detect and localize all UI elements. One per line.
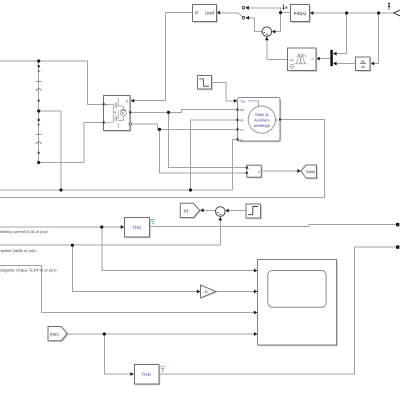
svg-text:Trq: Trq <box>240 99 245 103</box>
wire speed trunk <box>0 244 220 246</box>
node bridge low <box>158 128 161 131</box>
node neutral-DC <box>59 188 62 191</box>
node edge out 2 <box>396 245 399 248</box>
arrow into gain <box>197 290 201 294</box>
arrow into switch low <box>246 16 250 20</box>
block Main and Auxiliary windings motor <box>237 98 282 143</box>
svg-text:P: P <box>195 10 198 15</box>
block manual switch 2 (right edge, cut off) <box>388 3 400 16</box>
wire Vab from to scope in4 <box>68 333 256 335</box>
arrow into Uref <box>217 11 221 15</box>
arrow into dudt <box>371 62 375 66</box>
svg-text:PID(s): PID(s) <box>294 11 307 16</box>
svg-text:[Vab]: [Vab] <box>50 333 59 337</box>
wire switch common to Uref <box>218 12 238 14</box>
port marks <box>103 103 105 105</box>
block gain -K- <box>201 285 218 298</box>
wire bridge mid to M+ <box>130 110 237 113</box>
svg-text:+: + <box>106 103 108 107</box>
svg-text:Main &: Main & <box>255 112 268 117</box>
wire trunk riser to dudt <box>372 13 379 64</box>
badge logged signal <box>151 219 155 222</box>
wire speed riser to sum1 bottom <box>219 218 221 245</box>
block manual switch (control) <box>242 7 245 20</box>
svg-text:speed (rad/s or pu)>: speed (rad/s or pu)> <box>1 248 38 253</box>
arrow into mux in1 <box>333 52 337 56</box>
arrow into THD1 <box>121 225 125 229</box>
arrow into sum2 bottom <box>265 37 269 41</box>
block scope <box>258 260 338 347</box>
wire mux out to PWM in <box>317 58 330 60</box>
arrow into scope in3 <box>254 311 258 315</box>
arrow into goto x <box>200 208 204 212</box>
arrow into scope in2 <box>254 290 258 294</box>
ARROWHEADS <box>121 6 375 376</box>
block THD1 <box>125 218 156 239</box>
arrow into Vab goto <box>297 169 301 173</box>
node Ia <box>100 225 103 228</box>
svg-text:out: out <box>289 58 294 62</box>
wire DC midpoint to neutral bus <box>39 111 61 190</box>
wire switch lever <box>238 13 243 17</box>
svg-text:M+: M+ <box>240 108 245 112</box>
arrow into Trq <box>234 99 238 103</box>
annotation logged signal x <box>282 4 287 10</box>
svg-text:[Vab]: [Vab] <box>306 170 315 174</box>
block goto Vab <box>301 165 318 179</box>
block step <box>246 204 262 219</box>
wire m measurement bus line B <box>0 120 325 198</box>
wire speed branch to gain <box>72 245 198 291</box>
DC source E1 <box>36 65 42 102</box>
block pulse generator <box>198 76 213 91</box>
wire torque to scope in3 <box>0 265 255 312</box>
wire A return riser <box>233 140 238 191</box>
node trunk 2 <box>377 11 380 14</box>
block from Vab <box>48 327 69 342</box>
arrow into PID <box>310 11 314 15</box>
block THD2 <box>135 365 165 386</box>
svg-text:windings: windings <box>254 123 270 128</box>
block sum2 (control loop) <box>262 27 272 37</box>
svg-text:-K-: -K- <box>204 290 210 294</box>
arrow into THD2 <box>130 372 134 376</box>
wire pulse to Trq <box>211 82 234 101</box>
svg-text:in: in <box>311 57 314 61</box>
wire sum2 out to switch low throw <box>246 18 262 32</box>
arrow into sum1 bottom <box>218 217 222 221</box>
node PID out <box>279 11 282 14</box>
svg-text:[x]: [x] <box>184 208 188 213</box>
svg-text:M: M <box>240 118 243 122</box>
wire M return riser <box>191 120 238 190</box>
wire step to sum1 <box>227 210 247 212</box>
block mux <box>330 50 332 66</box>
wire DC chain vertical <box>38 61 40 163</box>
svg-text:-: - <box>249 172 250 176</box>
DC source E2 <box>36 119 42 155</box>
arrow into sum2 right <box>272 30 276 34</box>
badge logged signal <box>161 366 165 369</box>
wire THD1 out to right edge <box>149 225 396 227</box>
svg-text:Auxiliary: Auxiliary <box>254 118 271 123</box>
arrow into switch top <box>245 6 249 10</box>
arrow into sum1 right <box>225 209 229 213</box>
wire Vab branch to THD2 <box>104 334 131 374</box>
wire trunk riser to mux in1 <box>334 13 347 54</box>
wire gain out to scope in2 <box>216 291 255 293</box>
svg-text:Uref: Uref <box>205 10 214 15</box>
wire PID out to switch top throw <box>246 8 290 13</box>
wire bridge low to VM- <box>160 129 247 173</box>
wire Uref to gate g <box>134 13 193 101</box>
wire bridge low to A+ <box>130 124 237 129</box>
node Vab <box>103 332 106 335</box>
block voltage measurement <box>246 165 263 178</box>
arrow into scope in1 <box>254 269 258 273</box>
wire sum1 out to goto x <box>202 210 216 212</box>
svg-text:THD: THD <box>141 372 151 377</box>
block PWM generator <box>288 48 318 72</box>
node neutral-M <box>189 188 192 191</box>
arrow into mux in2 <box>333 62 337 66</box>
node speed <box>71 244 74 247</box>
node edge out 1 <box>396 223 399 226</box>
wire DC- to bridge - <box>39 123 104 163</box>
wire VM out to Vab goto <box>261 170 298 172</box>
node DC mid <box>37 109 40 112</box>
block half-bridge converter <box>103 96 132 132</box>
port marks <box>237 109 239 111</box>
svg-text:magnetic torque Te (N*m or pu): magnetic torque Te (N*m or pu)> <box>0 267 58 272</box>
svg-text:g: g <box>126 99 128 103</box>
wire neutral bus line A <box>0 189 233 191</box>
wire Ia to THD1 <box>0 226 122 228</box>
wire THD2 out to right edge <box>159 247 397 374</box>
svg-text:A+: A+ <box>240 128 244 132</box>
wire dudt out to mux in2 <box>334 63 356 65</box>
wire PWM out to sum2 bottom <box>267 38 288 60</box>
wire PID input trunk <box>312 12 396 14</box>
node trunk 1 <box>345 11 348 14</box>
node DC bottom <box>37 161 40 164</box>
svg-text:THD: THD <box>132 225 142 230</box>
svg-text:v: v <box>258 170 260 174</box>
arrow into PWM in <box>316 57 320 61</box>
block goto x <box>180 203 201 218</box>
arrow into scope in4 <box>254 332 258 336</box>
node DC top <box>37 59 40 62</box>
wire DC+ to bridge + <box>0 61 104 104</box>
svg-text:Δt: Δt <box>361 65 364 69</box>
block Uref controller <box>193 5 218 23</box>
svg-text:-: - <box>106 121 107 125</box>
block sum1 (speed compare) <box>216 207 226 217</box>
svg-text:Δu: Δu <box>361 60 365 64</box>
block PID controller <box>291 5 311 23</box>
svg-text:+: + <box>249 166 251 170</box>
svg-text:m: m <box>275 118 278 122</box>
arrow into gate g <box>131 99 135 103</box>
wire Ia branch to scope in1 <box>102 227 255 271</box>
DC source chain glyphs <box>36 65 42 154</box>
svg-text:winding current Ia (A or pu)>: winding current Ia (A or pu)> <box>0 229 49 234</box>
node bridge mid <box>167 111 170 114</box>
wire bridge mid to VM+ <box>169 112 247 167</box>
block derivative du/dt <box>356 57 372 72</box>
wire PID junction to sum2 right <box>273 13 281 32</box>
